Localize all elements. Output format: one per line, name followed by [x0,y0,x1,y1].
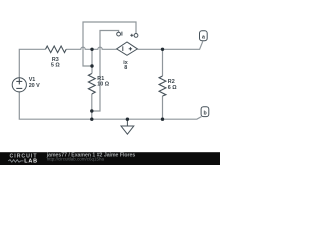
svg-text:LAB: LAB [24,159,38,165]
junction on top net at R1 [90,48,93,51]
wire: bottom net V1 bottom, across to terminal b [19,92,201,120]
U1 sense terminal minus (left circle) [117,32,121,36]
voltage source V1 [12,78,26,92]
node b terminal flag [201,107,209,117]
svg-text:8: 8 [124,65,127,71]
U1 sense plus mark [130,34,133,37]
junction on top net at R2 [161,48,164,51]
CircuitLab logo [8,154,38,165]
resistor R3 [46,46,67,53]
junction at R1 bottom loop joint [90,109,93,112]
wire: V1 top to R3 left (top net) [19,49,45,77]
wire: R3 right to diamond left with hops at x=83 and x=100 [66,47,116,49]
junction on bottom net at R2 [161,118,164,121]
svg-text:R2: R2 [168,79,175,85]
wire: loop from R1 top node up over to right sense terminal of U1 [83,22,136,66]
wire: R2 bottom lead [162,96,164,119]
svg-text:http://circuitlab.com/c6q15ha: http://circuitlab.com/c6q15ha [47,157,105,162]
node a terminal flag [200,31,208,41]
wire: R1 bottom lead to bottom net [91,94,93,119]
svg-text:5 Ω: 5 Ω [51,63,60,69]
svg-text:20 V: 20 V [29,83,40,89]
resistor R2 [159,76,166,96]
svg-text:b: b [204,110,207,116]
junction at R1 top loop joint [90,64,93,67]
svg-text:6 Ω: 6 Ω [168,85,177,91]
wire: loop from R1 bottom node up to left sense terminal of U1 [92,31,119,112]
wire: R1 top lead from top net [91,49,93,73]
wire: R2 top lead [162,49,164,76]
U1 sense terminal plus (right circle) [134,34,138,38]
wire: diamond right to R2 top to terminal a [138,41,203,49]
svg-text:a: a [202,34,205,40]
junction on bottom net at R1 [90,118,93,121]
ground [121,119,134,134]
footer bar [0,152,220,165]
U1 sense minus mark [121,32,123,36]
junction on bottom net at ground [126,118,129,121]
op-amp U1 dependent source CCVS diamond [117,42,138,55]
resistor R1 [88,74,95,95]
svg-text:10 Ω: 10 Ω [97,81,109,87]
